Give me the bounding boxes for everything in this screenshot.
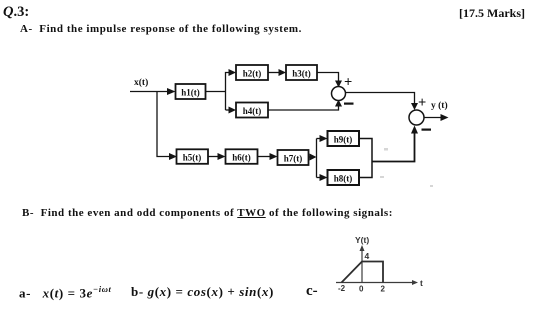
- signal plot c: [336, 235, 423, 294]
- heading Q.3:: [3, 4, 29, 21]
- svg-text:h9(t): h9(t): [334, 135, 353, 145]
- wire x(t) input: [130, 91, 168, 93]
- wire split vertical right: [316, 139, 318, 178]
- summer 1: [332, 87, 346, 101]
- svg-text:h5(t): h5(t): [183, 153, 202, 163]
- wire summer1 to summer2: [346, 93, 415, 105]
- wire h5 to h6: [208, 156, 218, 158]
- block h5: [177, 149, 209, 164]
- marks label: [459, 6, 525, 21]
- block h8: [328, 170, 360, 185]
- svg-text:h7(t): h7(t): [284, 154, 303, 164]
- part A heading: [20, 23, 302, 35]
- node x(t) label: [134, 77, 148, 88]
- wire h4 to summer 1 bottom: [268, 105, 339, 110]
- svg-text:+: +: [418, 95, 426, 111]
- plus sign summer 2: [418, 95, 426, 111]
- wire output y(t): [424, 117, 441, 119]
- plot trapezoid signal: [342, 262, 384, 283]
- svg-text:t: t: [420, 278, 423, 288]
- plot t-axis: [336, 282, 413, 284]
- node y(t) label: [431, 100, 448, 111]
- svg-text:2: 2: [381, 285, 386, 294]
- equation a: [19, 284, 111, 301]
- svg-text:h4(t): h4(t): [243, 106, 262, 116]
- part B heading: [22, 207, 393, 219]
- svg-text:4: 4: [365, 251, 370, 261]
- svg-text:y (t): y (t): [431, 100, 448, 111]
- plot label 4: [365, 251, 370, 261]
- wire h9 h8 join: [359, 139, 372, 178]
- block h4: [236, 103, 268, 118]
- wire h1 to split: [206, 91, 226, 93]
- wire split vertical: [226, 73, 230, 111]
- smudge marks: [380, 148, 433, 187]
- svg-text:0: 0: [359, 285, 364, 294]
- wire h6 to h7: [258, 156, 271, 158]
- item c label: [306, 283, 318, 300]
- svg-text:Y(t): Y(t): [355, 235, 369, 245]
- wire h7 to split: [309, 156, 311, 158]
- plot label 0: [359, 285, 364, 294]
- plot label -2: [338, 284, 346, 293]
- wire into h4: [226, 109, 230, 111]
- block h6: [226, 149, 258, 164]
- svg-text:h6(t): h6(t): [232, 153, 251, 163]
- minus sign summer 2: [422, 129, 432, 131]
- wire branch down to h5: [157, 92, 170, 157]
- svg-text:-2: -2: [338, 284, 346, 293]
- plot label t: [420, 278, 423, 288]
- wire h3 to summer 1 top: [317, 73, 339, 83]
- block h2: [236, 65, 268, 80]
- minus sign summer 1: [344, 102, 354, 104]
- wire into h2: [229, 69, 237, 76]
- summer 2: [409, 110, 424, 125]
- svg-text:x(t): x(t): [134, 77, 148, 88]
- plot label 2: [381, 285, 386, 294]
- wire into h8: [317, 177, 321, 179]
- svg-text:h1(t): h1(t): [181, 88, 200, 98]
- equation b: [131, 284, 274, 300]
- svg-text:h8(t): h8(t): [334, 174, 353, 184]
- wire h2 to h3: [268, 72, 279, 74]
- block h3: [286, 65, 317, 80]
- plot y-axis: [361, 249, 363, 283]
- svg-text:h2(t): h2(t): [243, 69, 262, 79]
- block h1: [176, 84, 206, 99]
- svg-text:h3(t): h3(t): [292, 69, 311, 79]
- svg-text:+: +: [344, 75, 352, 91]
- plus sign summer 1: [344, 75, 352, 91]
- wire join to summer2 bottom: [372, 132, 415, 162]
- block h7: [278, 150, 309, 165]
- wire into h9: [317, 138, 321, 140]
- plot label Y(t): [355, 235, 369, 245]
- block h9: [328, 131, 360, 146]
